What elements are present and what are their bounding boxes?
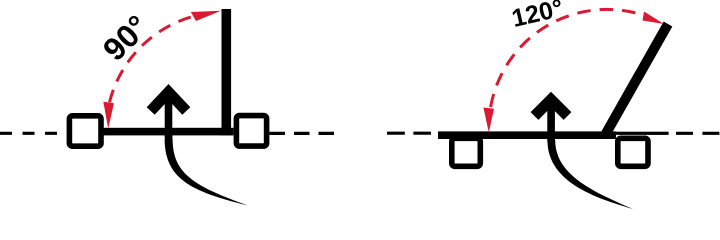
dashed fold axis right segment [270, 132, 337, 135]
svg-text:120°: 120° [509, 0, 566, 33]
black flip arrow tail swoosh [165, 139, 248, 206]
right square [236, 116, 266, 147]
left square (below bar) [452, 138, 481, 166]
svg-text:90°: 90° [96, 8, 156, 68]
diagonal bar (flap at 120) [605, 24, 669, 136]
dashed fold axis right segment [676, 132, 720, 135]
vertical bar (flap at 90) [222, 9, 232, 135]
black flip arrow shaft [165, 96, 173, 137]
red arrowhead bottom-left (points down) [103, 102, 114, 129]
thin solid fold axis stub right of bar [614, 132, 669, 135]
red dashed arc 120 [491, 9, 644, 107]
dashed fold axis left segment [0, 132, 66, 135]
left square [69, 116, 101, 146]
right square (below bar) [618, 138, 648, 166]
horizontal bar [103, 128, 234, 136]
black flip arrow shaft [547, 103, 555, 140]
dashed fold axis left segment [387, 132, 431, 135]
red dashed arc 90 [110, 13, 213, 103]
black flip arrow head [535, 100, 568, 117]
black flip arrow head [151, 92, 187, 111]
red arrowhead top (points right) [191, 11, 221, 21]
red arrowhead bottom-left (points down) [483, 108, 494, 133]
red arrowhead right (points right-down) [643, 12, 665, 25]
horizontal bar [438, 131, 616, 139]
black flip arrow tail swoosh [547, 140, 633, 209]
